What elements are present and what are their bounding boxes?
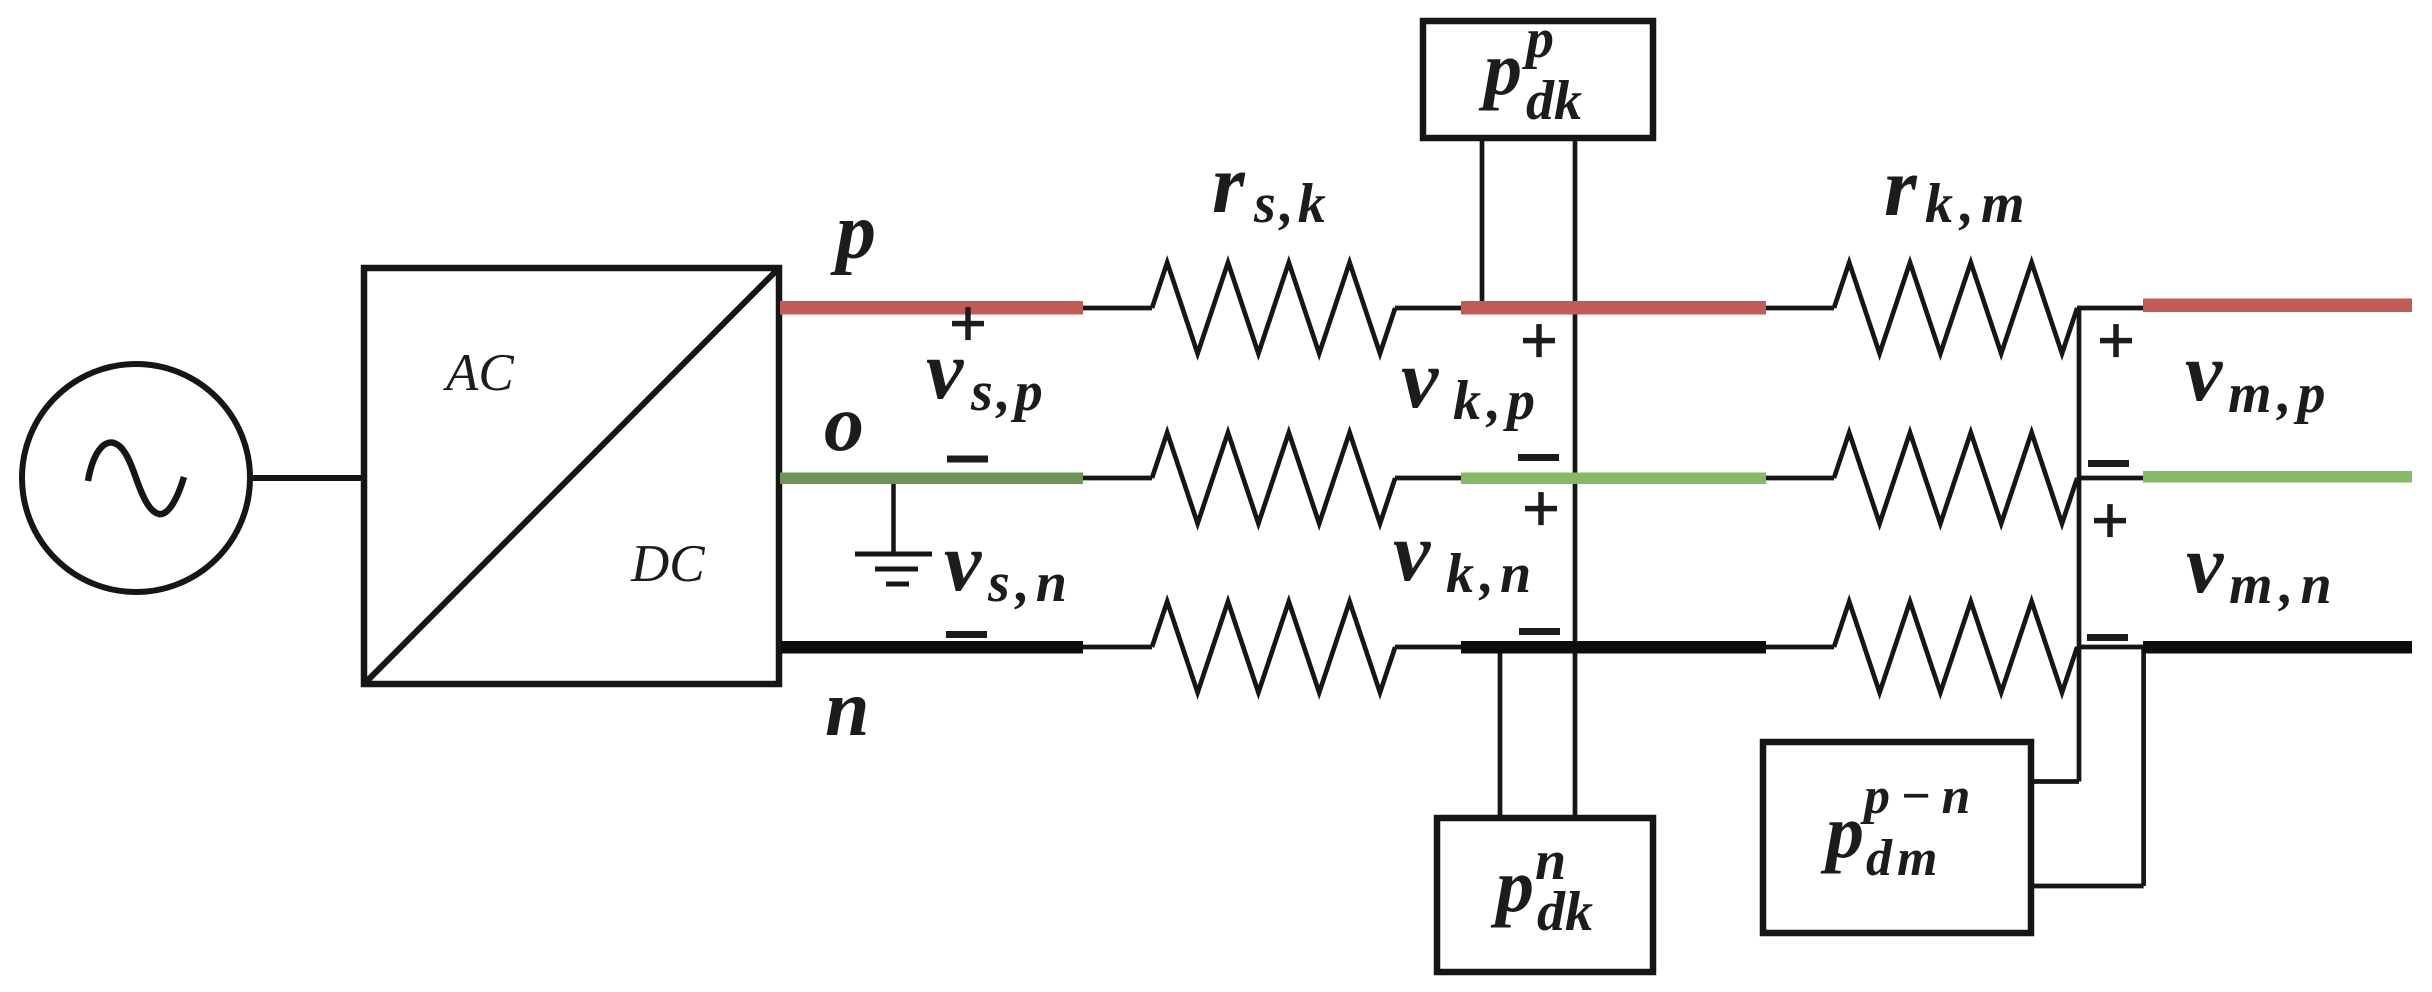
minus sign at v_m,p xyxy=(2088,460,2129,467)
svg-text:p: p xyxy=(830,188,876,276)
svg-text:m,p: m,p xyxy=(2228,363,2332,425)
svg-text:v: v xyxy=(2185,326,2224,419)
wire p rail into node m xyxy=(2077,306,2143,311)
wire n rail into node m xyxy=(2077,645,2144,650)
converter diagonal xyxy=(364,268,779,684)
wire n rail lead s-side xyxy=(1083,645,1152,650)
ac sine symbol xyxy=(88,443,184,515)
svg-text:s,p: s,p xyxy=(970,361,1047,423)
node segment n at m (black bar) xyxy=(2143,641,2412,654)
wire o rail lead s-side xyxy=(1083,476,1152,481)
load box p_dm^p-n xyxy=(1763,742,2031,933)
resistor r_s,k n-rail zigzag xyxy=(1152,602,1395,693)
wire p_dm box lower terminal horizontal xyxy=(2031,884,2144,889)
wire from load box p_dk^p right terminal down through rails to box p_dk^n xyxy=(1573,138,1578,818)
svg-text:p: p xyxy=(1478,27,1522,111)
plus sign at v_k,p xyxy=(1523,324,1555,357)
svg-text:AC: AC xyxy=(443,344,514,402)
svg-text:v: v xyxy=(2186,518,2225,611)
wire n rail lead k-side xyxy=(1766,645,1834,650)
resistor r_s,k o-rail zigzag xyxy=(1152,433,1395,524)
svg-text:dm: dm xyxy=(1866,830,1942,887)
node m vertical bus wire xyxy=(2077,308,2082,782)
load box p_dk^p xyxy=(1423,21,1653,138)
plus sign at v_m,n xyxy=(2094,504,2126,537)
resistor r_k,m p-rail zigzag xyxy=(1834,263,2077,354)
minus sign at v_k,p xyxy=(1518,454,1559,461)
node segment n at k (black bar) xyxy=(1461,641,1766,654)
wire p rail lead s-side xyxy=(1083,306,1152,311)
minus sign at v_s,n xyxy=(946,631,987,638)
svg-text:n: n xyxy=(825,665,870,753)
node segment o at k (light green bar) xyxy=(1461,473,1766,485)
plus sign at v_m,p xyxy=(2100,324,2132,357)
load box p_dk^n xyxy=(1437,818,1653,972)
ac source V1 xyxy=(22,364,250,592)
wire from n rail at m down to p_dm box lower terminal xyxy=(2141,647,2146,886)
ground lead wire at node o xyxy=(891,484,896,553)
converter U1 AC/DC box xyxy=(364,268,779,684)
minus sign at v_m,n xyxy=(2087,634,2128,641)
wire n rail into node k xyxy=(1395,645,1462,650)
wire o rail into node m xyxy=(2077,476,2143,481)
svg-text:p: p xyxy=(1820,790,1864,874)
resistor r_s,k p-rail zigzag xyxy=(1152,263,1395,354)
svg-text:o: o xyxy=(824,380,864,468)
svg-text:k,n: k,n xyxy=(1446,543,1537,605)
node segment n at s (black bar) xyxy=(781,641,1083,654)
svg-text:v: v xyxy=(926,324,965,417)
minus sign at v_k,n xyxy=(1519,628,1560,635)
resistor r_k,m o-rail zigzag xyxy=(1834,433,2077,524)
wire ac source to converter xyxy=(250,475,364,481)
plus sign at v_k,n xyxy=(1525,492,1557,525)
node segment o at s (dark green bar) xyxy=(780,473,1083,485)
wire p rail lead k-side xyxy=(1766,306,1834,311)
svg-text:DC: DC xyxy=(630,535,705,593)
resistor r_k,m n-rail zigzag xyxy=(1834,602,2077,693)
svg-text:v: v xyxy=(1393,506,1432,599)
svg-text:k,m: k,m xyxy=(1925,173,2032,235)
node segment p at s (red bar) xyxy=(780,301,1083,315)
plus sign at v_s,p xyxy=(952,307,984,340)
svg-text:r: r xyxy=(1884,141,1918,234)
wire o rail lead k-side xyxy=(1766,476,1834,481)
svg-text:p: p xyxy=(1522,8,1554,70)
wire node m bus to p_dm box upper terminal xyxy=(2031,779,2079,784)
wire p rail into node k xyxy=(1395,306,1462,311)
node segment p at k (red bar) xyxy=(1461,301,1766,315)
svg-text:dk: dk xyxy=(1537,881,1593,943)
svg-text:v: v xyxy=(944,516,983,609)
wire from n rail down to load box p_dk^n left terminal xyxy=(1498,648,1503,818)
svg-text:p−n: p−n xyxy=(1860,768,1980,825)
wire from load box p_dk^p left terminal down to p rail xyxy=(1480,138,1485,302)
svg-text:r: r xyxy=(1212,138,1246,231)
svg-text:dk: dk xyxy=(1526,70,1582,132)
svg-text:m,n: m,n xyxy=(2229,554,2339,616)
minus sign at v_s,p xyxy=(947,456,988,463)
ground symbol xyxy=(855,554,932,584)
svg-text:v: v xyxy=(1401,333,1440,426)
node segment o at m (light green bar) xyxy=(2143,471,2412,483)
svg-text:s,n: s,n xyxy=(987,552,1073,614)
svg-text:k,p: k,p xyxy=(1453,370,1541,432)
node segment p at m (red bar) xyxy=(2143,299,2412,313)
svg-text:p: p xyxy=(1490,844,1534,928)
svg-text:s,k: s,k xyxy=(1253,173,1330,235)
wire o rail into node k xyxy=(1395,476,1462,481)
